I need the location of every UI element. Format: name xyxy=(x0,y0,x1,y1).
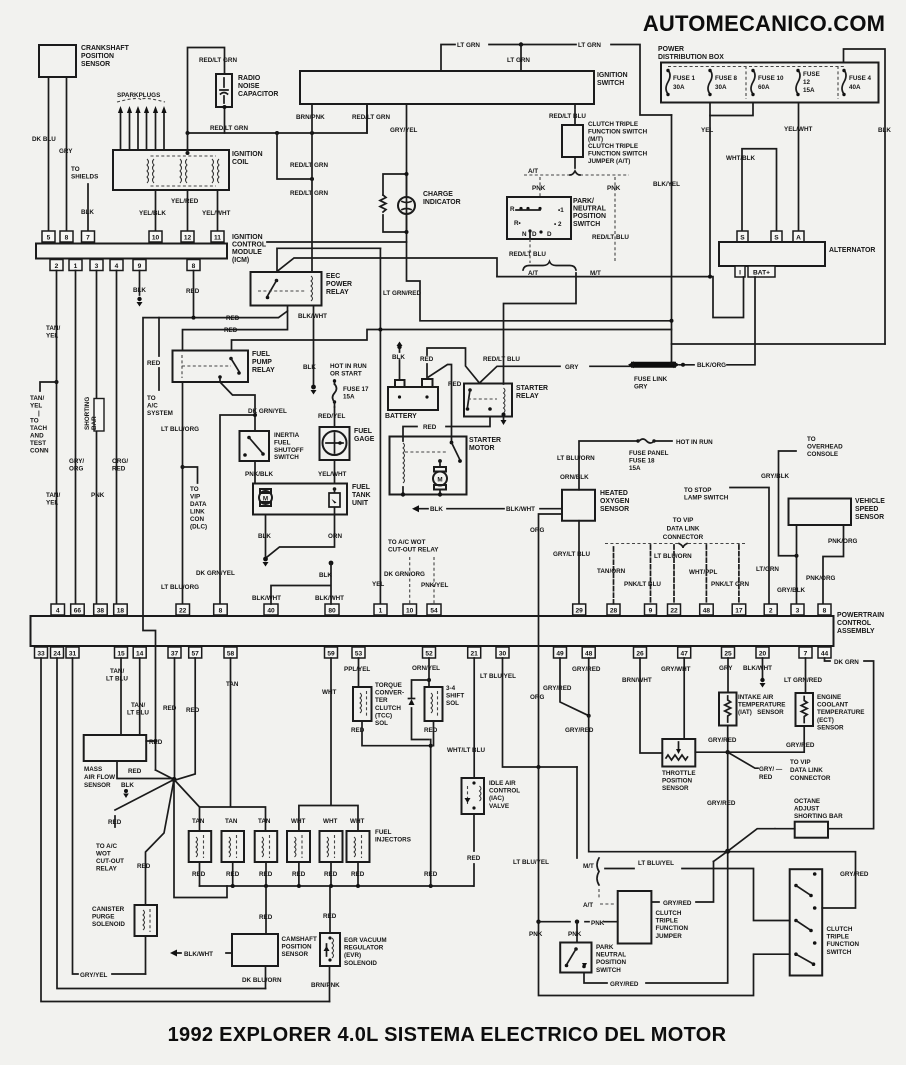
svg-text:PNK: PNK xyxy=(607,185,621,192)
battery posts xyxy=(398,395,401,398)
svg-text:BLK: BLK xyxy=(878,127,891,134)
wire WHT/PPL to pin 48 xyxy=(705,545,707,604)
svg-text:RED: RED xyxy=(186,707,200,714)
PCM bottom pin 31 xyxy=(66,647,79,658)
svg-text:21: 21 xyxy=(471,651,479,658)
svg-text:GRY/RED: GRY/RED xyxy=(663,900,692,907)
svg-text:GRY/RED: GRY/RED xyxy=(610,981,639,988)
wire RED/YEL to fuel gage xyxy=(334,407,336,427)
svg-text:RED/LT GRN: RED/LT GRN xyxy=(352,114,390,121)
svg-text:48: 48 xyxy=(585,651,593,658)
svg-text:1: 1 xyxy=(74,263,78,270)
inertia internals xyxy=(243,436,265,457)
svg-text:LT GRN/RED: LT GRN/RED xyxy=(383,290,421,297)
svg-text:RED: RED xyxy=(259,871,273,878)
svg-text:LT BLU/ORN: LT BLU/ORN xyxy=(654,553,692,560)
svg-text:48: 48 xyxy=(703,608,711,615)
junction diode tap xyxy=(427,678,431,682)
PCM top pin 17 xyxy=(732,604,746,615)
wire WHT/LT BLU pin 21 to IAC xyxy=(473,658,475,778)
fuel gage dial xyxy=(323,431,347,455)
svg-text:GRY/YEL: GRY/YEL xyxy=(80,972,108,979)
junction on BRN/PNK xyxy=(310,177,314,181)
junction trunk tap xyxy=(378,328,382,332)
wire LT GRN top feed xyxy=(441,45,672,116)
svg-text:ORN: ORN xyxy=(328,533,342,540)
wire PNK/ORG VSS right to PCM 8 xyxy=(823,525,844,604)
junction maf right xyxy=(154,739,158,743)
clutch triple function jumper box xyxy=(618,891,652,944)
EEC relay internals xyxy=(258,276,313,301)
svg-text:28: 28 xyxy=(610,608,618,615)
svg-text:RED: RED xyxy=(192,871,206,878)
junction charge top xyxy=(405,172,409,176)
svg-text:GRY/RED: GRY/RED xyxy=(565,727,594,734)
wire BRN/WHT pin 26 to TPS xyxy=(640,658,662,753)
svg-text:SPARKPLUGS: SPARKPLUGS xyxy=(117,92,160,99)
PCM top pin 10 xyxy=(403,604,417,615)
svg-text:BLK/ORG: BLK/ORG xyxy=(697,362,726,369)
PCM bottom pin 57 xyxy=(189,647,202,658)
svg-text:BLK/WHT: BLK/WHT xyxy=(298,313,327,320)
alternator pin BAT+ xyxy=(748,266,775,277)
ignition coil box xyxy=(113,150,229,190)
camshaft position sensor box xyxy=(232,934,278,966)
svg-text:11: 11 xyxy=(214,235,221,242)
battery RED terminal xyxy=(422,379,433,387)
svg-text:M: M xyxy=(263,496,268,503)
wire DK BLU/ORN camshaft return xyxy=(265,966,267,989)
PCM bottom pin 33 xyxy=(35,647,48,658)
svg-text:GRY/BLK: GRY/BLK xyxy=(777,587,806,594)
PCM top pin 80 xyxy=(325,604,339,615)
wire BLK/YEL drop xyxy=(671,115,673,364)
svg-text:54: 54 xyxy=(430,608,438,615)
svg-text:RED: RED xyxy=(186,288,200,295)
PCM bottom pin 21 xyxy=(468,647,481,658)
svg-text:GRY/RED: GRY/RED xyxy=(786,742,815,749)
svg-text:D: D xyxy=(547,231,552,238)
svg-text:RED: RED xyxy=(448,381,462,388)
svg-text:7: 7 xyxy=(86,235,90,242)
svg-text:GRY: GRY xyxy=(719,665,733,672)
svg-text:YEL/RED: YEL/RED xyxy=(171,198,199,205)
PCM top pin 4 xyxy=(51,604,65,615)
svg-text:5: 5 xyxy=(47,235,51,242)
junction big crossing xyxy=(725,849,730,854)
wire RED second to fuel pump relay xyxy=(183,311,288,351)
wire GRY/RED stub to VIP DLC xyxy=(728,752,758,768)
wire BLK ground stub to pins 40 80 xyxy=(329,561,334,566)
junction LT GRN xyxy=(519,42,523,46)
svg-text:RED: RED xyxy=(226,315,240,322)
charge indicator lamp xyxy=(398,197,415,214)
power box feed from top right xyxy=(844,49,886,344)
svg-text:LT/GRN: LT/GRN xyxy=(756,566,779,573)
svg-text:3: 3 xyxy=(95,263,99,270)
svg-text:BLK: BLK xyxy=(430,506,443,513)
starter relay box xyxy=(464,384,512,417)
wire GRY from sensor to ICM pin 8 xyxy=(66,77,68,231)
PCM top pin 2 xyxy=(764,604,777,615)
svg-text:LT BLU/ORG: LT BLU/ORG xyxy=(161,584,199,591)
wire fan to injector tan bus xyxy=(174,780,200,808)
wire fuel pump relay switch feed xyxy=(232,330,672,351)
PCM bottom pin 14 xyxy=(133,647,146,658)
svg-text:ORG: ORG xyxy=(530,527,544,534)
charge indicator circuit xyxy=(383,174,407,232)
svg-text:FUSE 8: FUSE 8 xyxy=(715,75,738,82)
wire RED/LT GRN feed bus to ignition switch xyxy=(188,104,368,133)
wire elbow RED/LT GRN down-right xyxy=(277,133,312,179)
clutch triple function switch bottom box xyxy=(790,869,823,975)
svg-text:WHT/PPL: WHT/PPL xyxy=(689,569,717,576)
radio noise capacitor xyxy=(216,74,232,107)
fuse 10 60A xyxy=(751,69,784,96)
wire RED TCC to common xyxy=(362,721,431,746)
ignition switch box xyxy=(300,71,594,104)
wire A/T stub to jumper xyxy=(599,889,616,904)
idle air control valve box xyxy=(462,778,485,814)
power box internal dashed partitions xyxy=(668,66,844,99)
svg-text:RED: RED xyxy=(108,819,122,826)
svg-text:14: 14 xyxy=(136,651,144,658)
PCM top pin 66 xyxy=(71,604,85,615)
clutch triple function switch (top) xyxy=(562,125,583,157)
wire PNK junction row xyxy=(536,920,540,924)
svg-text:GRY/RED: GRY/RED xyxy=(543,685,572,692)
svg-text:12: 12 xyxy=(803,79,811,86)
canister purge solenoid xyxy=(135,905,158,936)
svg-text:22: 22 xyxy=(179,608,187,615)
junction fuse link left xyxy=(681,363,685,367)
fuse 1 30A xyxy=(666,69,696,96)
svg-text:30A: 30A xyxy=(673,84,685,91)
svg-text:8: 8 xyxy=(823,608,827,615)
wire PPL/YEL pin 53 to TCC xyxy=(358,658,360,687)
svg-text:LT BLU/ORN: LT BLU/ORN xyxy=(557,455,595,462)
wire coil tower YEL/RED to pin 12 xyxy=(187,190,189,231)
fuel tank unit box xyxy=(253,484,347,515)
svg-text:33: 33 xyxy=(37,651,45,658)
clutch switch contacts xyxy=(794,872,816,966)
svg-text:A: A xyxy=(796,235,801,242)
svg-text:YEL/BLK: YEL/BLK xyxy=(139,210,166,217)
wire GRY/YEL from ignition switch xyxy=(406,104,408,174)
battery box xyxy=(388,387,438,410)
svg-text:4: 4 xyxy=(115,263,119,270)
injector TAN bus xyxy=(200,658,266,831)
wire RED EVR feed xyxy=(329,886,331,933)
charge indicator resistor xyxy=(380,195,386,212)
EEC power relay xyxy=(251,272,322,306)
svg-text:52: 52 xyxy=(425,651,433,658)
svg-text:DK GRN/YEL: DK GRN/YEL xyxy=(196,570,235,577)
svg-text:BLK/WHT: BLK/WHT xyxy=(184,951,213,958)
svg-text:60A: 60A xyxy=(758,84,770,91)
wire ORG trunk junction xyxy=(537,765,541,769)
wire GRY/RED trunk down to clutch switch xyxy=(589,716,856,908)
svg-text:31: 31 xyxy=(69,651,77,658)
wire BLK/WHT pin 20 ground xyxy=(762,658,764,678)
svg-text:24: 24 xyxy=(53,651,61,658)
starter relay internals xyxy=(466,388,505,413)
svg-text:PNK/YEL: PNK/YEL xyxy=(421,582,448,589)
PCM bottom pin 26 xyxy=(634,647,647,658)
injector WHT bus xyxy=(299,658,358,830)
fuse 17 15A xyxy=(334,380,336,407)
svg-text:25: 25 xyxy=(724,651,732,658)
wire ORN sender ground xyxy=(267,515,335,558)
svg-text:HOT IN RUNOR START: HOT IN RUNOR START xyxy=(330,363,367,378)
wire PNK/LT GRN to pin 17 xyxy=(738,545,740,604)
junction sensor return xyxy=(726,750,730,754)
svg-text:BATTERY: BATTERY xyxy=(385,413,417,420)
wire LT BLU/YEL M/T line xyxy=(605,869,790,921)
wire LT BLU/ORN to pin 22b xyxy=(673,545,675,604)
junction coil B+ xyxy=(186,151,190,155)
svg-text:LT GRN: LT GRN xyxy=(507,57,530,64)
wire LT GRN/RED trunk to PCM pin 1 xyxy=(379,248,381,604)
injector lower leads xyxy=(200,862,359,886)
PCM top pin 29 xyxy=(573,604,586,615)
fuse 8 30A xyxy=(708,69,738,96)
svg-text:2: 2 xyxy=(55,263,59,270)
svg-text:GRY/WHT: GRY/WHT xyxy=(661,666,691,673)
svg-text:FUSE: FUSE xyxy=(803,71,820,78)
svg-text:LT GRN: LT GRN xyxy=(578,42,601,49)
svg-text:RED: RED xyxy=(424,727,438,734)
svg-text:RED/LT GRN: RED/LT GRN xyxy=(210,125,248,132)
fuel injector 1 xyxy=(189,831,212,862)
wire PNK ICM 3 to PCM 38 xyxy=(96,271,98,605)
wire starter relay output RED to solenoid xyxy=(403,417,490,442)
svg-text:53: 53 xyxy=(355,651,363,658)
svg-text:BLK: BLK xyxy=(133,287,146,294)
dashed wire PNK/YEL to pin 54 xyxy=(433,557,435,604)
svg-text:IGNITIONSWITCH: IGNITIONSWITCH xyxy=(597,72,628,87)
svg-text:BLK: BLK xyxy=(303,364,316,371)
svg-text:47: 47 xyxy=(681,651,689,658)
svg-text:FUELTANKUNIT: FUELTANKUNIT xyxy=(352,484,371,507)
ICM pin 8 top xyxy=(60,231,73,242)
wire EEC relay feed staircase xyxy=(277,248,380,272)
wire fan to A/C WOT stub xyxy=(115,780,174,828)
svg-text:LT BLU/YEL: LT BLU/YEL xyxy=(638,860,674,867)
svg-text:I: I xyxy=(739,270,741,277)
wire RED battery to starter relay xyxy=(427,348,479,383)
svg-text:RED/LT BLU: RED/LT BLU xyxy=(549,113,586,120)
svg-text:80: 80 xyxy=(328,608,336,615)
svg-text:BAT+: BAT+ xyxy=(753,270,770,277)
wire LT BLU/YEL trunk down xyxy=(539,767,790,996)
heated oxygen sensor box xyxy=(562,490,595,521)
alternator pin S2 xyxy=(771,231,782,242)
fuel pump motor xyxy=(259,489,272,506)
3-4 shift solenoid xyxy=(425,687,443,721)
svg-text:57: 57 xyxy=(192,651,200,658)
svg-text:GRY/BLK: GRY/BLK xyxy=(761,473,790,480)
wire RED ICM 8 to bus xyxy=(193,271,195,318)
PNPS internals xyxy=(510,206,564,239)
wire ORG/RED ICM 4 to PCM 18 xyxy=(116,271,118,605)
svg-text:RED/LT GRN: RED/LT GRN xyxy=(290,190,328,197)
wire RED 3-4 sol to bus xyxy=(431,721,434,886)
wire GRY/RED ECT to return xyxy=(695,726,804,752)
ICM pin 4 xyxy=(110,260,123,271)
svg-text:18: 18 xyxy=(117,608,125,615)
alternator pin I xyxy=(735,266,745,277)
svg-text:WHT/LT BLU: WHT/LT BLU xyxy=(447,747,485,754)
junction fuse link BLK/YEL xyxy=(670,362,674,366)
fuse 12 15A xyxy=(796,69,820,96)
svg-text:RED: RED xyxy=(149,739,163,746)
svg-text:49: 49 xyxy=(556,651,564,658)
junction 48-49 xyxy=(587,714,591,718)
svg-text:BLK: BLK xyxy=(81,209,94,216)
svg-text:12: 12 xyxy=(184,235,192,242)
svg-text:TAN: TAN xyxy=(225,818,238,825)
wire GRY/RED PNPS return xyxy=(584,851,728,983)
svg-text:PNK/ORG: PNK/ORG xyxy=(806,575,835,582)
svg-text:RED: RED xyxy=(323,913,337,920)
svg-text:BLK/WHT: BLK/WHT xyxy=(252,595,281,602)
svg-text:BLK/WHT: BLK/WHT xyxy=(315,595,344,602)
PCM bottom pin 15 xyxy=(115,647,128,658)
svg-text:• 2: • 2 xyxy=(554,221,562,228)
junction BRN/PNK crossing xyxy=(310,131,314,135)
svg-text:RED: RED xyxy=(420,356,434,363)
ICM pin 2 xyxy=(50,260,63,271)
ground arrow battery xyxy=(397,345,401,349)
svg-text:WHT: WHT xyxy=(350,818,364,825)
fuel pump relay internals xyxy=(182,355,241,379)
wire GRY/RED IAT to return xyxy=(727,726,729,753)
wire LT BLU/YEL pin 30 xyxy=(503,658,578,767)
svg-text:30A: 30A xyxy=(715,84,727,91)
svg-text:15A: 15A xyxy=(803,87,815,94)
fuel injector 4 xyxy=(287,831,310,862)
mass air flow sensor box xyxy=(84,735,147,761)
sparkplugs bracket xyxy=(117,98,165,102)
svg-text:R•: R• xyxy=(514,220,521,227)
svg-text:17: 17 xyxy=(735,608,743,615)
svg-text:59: 59 xyxy=(327,651,335,658)
wire RED pin 37 to junction xyxy=(174,658,176,779)
wire RED battery to starter motor xyxy=(429,365,452,442)
PCM bottom pin 24 xyxy=(51,647,64,658)
svg-text:DK GRN: DK GRN xyxy=(834,659,859,666)
wire octane diagonal to jumper xyxy=(714,829,776,862)
svg-text:RED: RED xyxy=(147,360,161,367)
inertia fuel shutoff switch xyxy=(240,431,270,461)
PCM bottom pin 52 xyxy=(423,647,436,658)
svg-text:YEL: YEL xyxy=(701,127,713,134)
svg-text:GRY/YEL: GRY/YEL xyxy=(390,127,418,134)
wire shield drain to ICM pin 7 xyxy=(87,184,89,231)
svg-text:RED/LT GRN: RED/LT GRN xyxy=(290,162,328,169)
svg-text:LT BLU/ORG: LT BLU/ORG xyxy=(161,426,199,433)
wire GRY to fuse link diagonal xyxy=(480,366,632,383)
svg-text:3: 3 xyxy=(796,608,800,615)
svg-text:WHT: WHT xyxy=(291,818,305,825)
svg-text:BLK: BLK xyxy=(121,782,134,789)
svg-text:LT BLU/YEL: LT BLU/YEL xyxy=(480,673,516,680)
svg-text:RED: RED xyxy=(259,914,273,921)
crankshaft position sensor xyxy=(39,45,76,77)
svg-text:BRN/PNK: BRN/PNK xyxy=(311,982,340,989)
svg-text:GRY/LT BLU: GRY/LT BLU xyxy=(553,551,591,558)
wire BLK pump ground xyxy=(265,515,267,557)
wire RED EEC to left trunk xyxy=(143,306,288,771)
svg-text:15: 15 xyxy=(117,651,125,658)
junction dk grn/yel tap xyxy=(253,413,257,417)
wire PNK/LT BLU to pin 9 xyxy=(650,545,652,604)
solid bracket A/T M/T xyxy=(523,262,576,271)
ICM pin 3 xyxy=(90,260,103,271)
wire below clutch switch xyxy=(574,157,576,168)
svg-text:S: S xyxy=(774,235,779,242)
svg-text:7: 7 xyxy=(804,651,808,658)
svg-text:1: 1 xyxy=(379,608,383,615)
PCM top pin 38 xyxy=(94,604,108,615)
ground fuel tank xyxy=(263,557,268,562)
wire RED maf bottom to junction xyxy=(117,761,172,779)
svg-text:FUSE 1: FUSE 1 xyxy=(673,75,696,82)
svg-text:M/T: M/T xyxy=(583,863,594,870)
svg-text:PNK/BLK: PNK/BLK xyxy=(245,471,273,478)
wire RED/LT GRN bridge over capacitor xyxy=(188,48,225,134)
wire WHT/BLK alternator S bridge xyxy=(742,149,777,231)
wire BLK/ORG fuse link to BAT+ xyxy=(680,277,756,365)
wire GRY/RED pins 49 48 merge xyxy=(560,658,589,716)
svg-text:9: 9 xyxy=(138,263,142,270)
svg-text:N: N xyxy=(522,231,527,238)
PCM top pin 1 xyxy=(374,604,387,615)
svg-text:TAN: TAN xyxy=(258,818,271,825)
svg-text:20: 20 xyxy=(759,651,767,658)
wire BLK/WHT heated O2 ground line xyxy=(419,508,562,510)
wire pin 24 long loop to camshaft return xyxy=(57,658,266,989)
ground pin 9 xyxy=(137,297,141,301)
wire BLK battery ground xyxy=(399,349,401,380)
dashed bracket under clutch switch xyxy=(524,174,629,176)
wire GRY/WHT pin 47 to TPS xyxy=(683,658,685,739)
ignition coil internal dashed links xyxy=(151,156,217,186)
wire BRN/PNK from ignition switch xyxy=(311,104,313,272)
shorting bar xyxy=(94,399,104,432)
PCM bottom pin 58 xyxy=(224,647,237,658)
wire TAN/LT BLU pin 15 to MAF xyxy=(120,658,122,735)
PCM top pin 22 xyxy=(176,604,190,615)
svg-text:GRY/ORG: GRY/ORG xyxy=(69,458,84,473)
wire LT/GRN stop lamp to PCM 2 xyxy=(730,488,769,605)
wire TAN/YEL ICM 2 to PCM 4 xyxy=(56,271,58,605)
svg-text:RED: RED xyxy=(351,871,365,878)
wire YEL fuse output xyxy=(709,103,711,277)
svg-text:TAN: TAN xyxy=(192,818,205,825)
wire GRY/BLK overhead console to PCM 3 xyxy=(779,451,797,604)
dashed wire RED/LT BLU from PNPS xyxy=(529,239,531,263)
svg-text:ORN/YEL: ORN/YEL xyxy=(412,665,440,672)
svg-text:PPL/YEL: PPL/YEL xyxy=(344,666,370,673)
svg-text:RED/LT BLU: RED/LT BLU xyxy=(483,356,520,363)
svg-text:8: 8 xyxy=(192,263,196,270)
alternator pin S1 xyxy=(737,231,748,242)
junction YEL tap xyxy=(708,275,712,279)
wire TAN/ORN to pin 28 xyxy=(613,547,615,604)
junction elbow tap xyxy=(275,131,279,135)
